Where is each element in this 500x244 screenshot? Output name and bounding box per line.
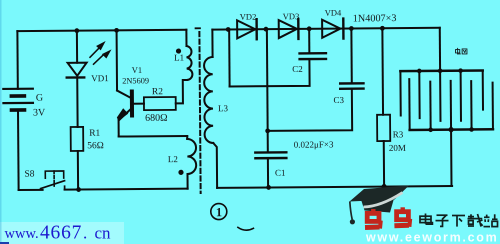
grid bottom finger 4 [470, 81, 472, 129]
node junction collector/top rail [114, 28, 119, 33]
LED VD1 cathode bar [67, 76, 84, 79]
capacitor C2 [300, 53, 326, 59]
svg-text:www.: www. [5, 226, 39, 242]
grid bottom finger 1 [408, 79, 410, 130]
capacitor C3 [340, 83, 363, 88]
wire C3 top [350, 29, 352, 84]
wire bottom rail secondary [217, 186, 452, 188]
logo cap highlight band [364, 193, 403, 208]
capacitor C1 [255, 152, 286, 158]
wire LED to R1 [76, 77, 78, 126]
logo text dianzi xiazai zhan [420, 214, 498, 227]
wire collector riser [116, 30, 118, 90]
switch S8 [40, 171, 64, 190]
svg-text:VD3: VD3 [283, 11, 300, 21]
svg-text:G: G [36, 93, 43, 104]
electrode grid bottom bar [410, 128, 493, 131]
svg-text:cn: cn [95, 223, 112, 242]
svg-text:680Ω: 680Ω [145, 113, 168, 124]
wire battery- down [17, 110, 20, 190]
logo cap tassel end [350, 219, 355, 224]
scan edge artifact corner [0, 242, 9, 244]
transistor V1 base bar [130, 92, 134, 116]
wire R3 top [381, 28, 384, 114]
logo chongchong characters [365, 207, 410, 228]
inductor L2 winding [187, 139, 196, 174]
LED arrow 1 [90, 41, 106, 57]
grid top finger 4 [460, 71, 462, 121]
grid bottom finger 5 [492, 83, 494, 130]
wire L3 bottom [213, 143, 217, 188]
svg-text:C3: C3 [333, 95, 344, 105]
node VD3/C2 junction [307, 26, 312, 31]
node junction LED/top rail [74, 28, 79, 33]
svg-text:R1: R1 [89, 129, 100, 139]
wire top rail down to grid [439, 28, 441, 71]
svg-text:L3: L3 [218, 103, 229, 113]
wire emitter down [118, 120, 120, 136]
transistor emitter arrowhead [117, 108, 128, 121]
wire battery+ to top rail [16, 31, 18, 89]
resistor R3 box [377, 115, 390, 141]
grid bottom finger 3 [450, 81, 452, 130]
svg-text:C2: C2 [292, 64, 303, 74]
diode VD4 [322, 19, 343, 39]
svg-text:R3: R3 [393, 129, 404, 139]
wire secondary top rail [212, 28, 439, 30]
node VD4/C3 junction [349, 26, 354, 31]
svg-text:C1: C1 [275, 168, 286, 178]
transformer core (dashed) [199, 32, 200, 193]
wire bottom rail primary [65, 188, 188, 191]
grid bottom finger 2 [429, 82, 431, 130]
wire L3-top node riser to C2 bottom [228, 29, 230, 86]
svg-text:L1: L1 [174, 53, 184, 63]
svg-text:1N4007×3: 1N4007×3 [353, 13, 397, 24]
svg-text:20M: 20M [389, 143, 406, 153]
grid top finger 5 [482, 70, 484, 109]
diode VD3 [279, 19, 299, 39]
watermark www.4667.cn [5, 222, 112, 243]
wire C2 top [308, 29, 310, 53]
wire L1 top to rail [185, 30, 187, 46]
svg-text:www.eeworm.com: www.eeworm.com [365, 231, 498, 244]
wire L2 bottom to rail [187, 174, 189, 189]
svg-text:3V: 3V [33, 107, 46, 118]
inductor L3 winding [204, 57, 213, 143]
wire C1 bottom [267, 158, 269, 187]
watermark backdrop [0, 222, 124, 244]
node L3/rail corner dot [226, 27, 231, 32]
wire emitter to L2 [119, 135, 187, 138]
node C3/C1-stack junction [265, 128, 270, 133]
svg-text:S8: S8 [24, 169, 34, 179]
wire L2 top stub [186, 136, 188, 139]
transistor collector diagonal [117, 90, 132, 98]
LED VD1 triangle [68, 63, 87, 76]
logo cap tassel [350, 202, 352, 220]
wire C3 bottom [267, 89, 352, 131]
wire R1 to bottom rail [77, 151, 79, 190]
grid top finger 1 [399, 71, 401, 115]
resistor R1 box [71, 127, 84, 151]
electrode grid top bar [400, 69, 482, 72]
LED arrow 2 [93, 49, 111, 64]
node junction R1/rail [76, 187, 81, 192]
figure number circle 1 [211, 203, 227, 219]
node grid bottom junction dots [428, 127, 474, 133]
svg-text:2N5609: 2N5609 [122, 76, 149, 85]
logo graduation cap board [350, 186, 410, 202]
wire base to R2 [132, 103, 144, 105]
wire R3 bottom [383, 141, 385, 186]
svg-text:R2: R2 [152, 87, 163, 97]
svg-text:VD2: VD2 [240, 12, 257, 22]
stray arc mark [238, 227, 254, 230]
transformer core top tick [196, 27, 200, 29]
node grid top junction dots [417, 68, 463, 73]
logo cap body [361, 199, 394, 213]
wire top rail to LED [76, 31, 78, 63]
grid top finger 2 [418, 71, 420, 118]
svg-text:56Ω: 56Ω [87, 141, 104, 151]
scan edge artifact left [0, 0, 2, 244]
svg-text:.: . [83, 223, 87, 242]
label grid (dian wang) [456, 48, 467, 54]
node VD2/VD3 junction [264, 27, 269, 32]
svg-text:1: 1 [216, 205, 222, 219]
svg-text:L2: L2 [168, 154, 178, 164]
svg-text:V1: V1 [132, 65, 142, 75]
wire top rail primary [17, 30, 186, 31]
wire R2 to L1 bottom [176, 80, 187, 103]
wire C2 bottom [229, 59, 309, 86]
L1 polarity dot [176, 48, 181, 53]
node C1/rail junction [266, 185, 271, 190]
node R3/top rail junction [380, 26, 385, 31]
wire bottom rail to switch [19, 189, 43, 191]
diode VD2 [237, 19, 257, 39]
svg-text:4667: 4667 [40, 222, 82, 243]
L2 polarity dot [178, 170, 183, 175]
svg-text:VD1: VD1 [91, 73, 109, 83]
wire grid bottom feed [450, 130, 452, 186]
node R3/rail junction [381, 184, 386, 189]
wire L3 top to rail [211, 30, 213, 57]
svg-text:0.022μF×3: 0.022μF×3 [294, 139, 334, 149]
wire C1 stack vertical [266, 29, 269, 152]
resistor R2 box [144, 97, 176, 110]
inductor L1 winding [186, 46, 192, 80]
battery G [3, 89, 33, 110]
svg-text:VD4: VD4 [325, 8, 342, 18]
grid top finger 3 [439, 71, 441, 121]
transistor emitter diagonal [119, 108, 132, 120]
